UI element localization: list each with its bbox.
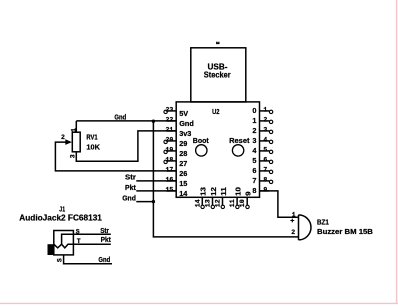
svg-text:S: S — [57, 258, 64, 262]
svg-text:3: 3 — [70, 154, 77, 158]
svg-text:RV1: RV1 — [86, 134, 97, 141]
wire U2 pin 9 to buzzer pin 1 — [260, 191, 299, 217]
svg-text:11: 11 — [229, 199, 236, 207]
IC U2 body — [176, 102, 259, 197]
wire Gnd stub near U2 bottom-left — [136, 201, 153, 203]
svg-text:16: 16 — [165, 177, 173, 184]
svg-text:Gnd: Gnd — [98, 257, 110, 264]
cropped designator mark above USB connector — [217, 42, 219, 44]
U2 bottom pin 10 (9) — [239, 192, 252, 209]
svg-text:2: 2 — [61, 134, 65, 141]
svg-text:15: 15 — [179, 179, 187, 188]
svg-text:Buzzer BM 15B: Buzzer BM 15B — [317, 229, 373, 236]
svg-text:27: 27 — [179, 159, 187, 168]
svg-text:1: 1 — [252, 116, 256, 125]
U2 right pin 5 (4) — [252, 146, 272, 155]
wire Str to U2 pin 16 — [136, 180, 176, 182]
wire RV1 wiper pin2 to U2 pin 17 — [55, 142, 176, 171]
U2 left pin 21 (3v3) — [165, 127, 191, 139]
svg-text:Pkt: Pkt — [125, 185, 137, 192]
wire Gnd: RV1 pin1 to U2 pin 22 — [76, 120, 176, 122]
buzzer BZ1 body — [299, 215, 312, 240]
svg-text:Boot: Boot — [193, 138, 210, 145]
U2 right pin 8 (7) — [252, 176, 272, 185]
wire Pkt to U2 pin 15 — [136, 190, 176, 192]
svg-text:26: 26 — [179, 169, 187, 178]
svg-text:9: 9 — [244, 192, 253, 196]
svg-text:7: 7 — [252, 176, 256, 185]
svg-text:23: 23 — [165, 107, 173, 114]
svg-text:Reset: Reset — [229, 138, 250, 145]
buzzer BZ1 plus sign — [290, 219, 294, 223]
svg-text:28: 28 — [179, 149, 187, 158]
svg-text:10: 10 — [239, 199, 246, 207]
U2 left pin 15 (14) — [165, 187, 188, 199]
svg-text:Gnd: Gnd — [179, 119, 194, 128]
svg-text:21: 21 — [165, 127, 173, 134]
svg-text:Str: Str — [125, 175, 136, 182]
svg-text:22: 22 — [165, 117, 173, 124]
svg-text:8: 8 — [252, 186, 256, 195]
svg-text:Gnd: Gnd — [122, 196, 136, 203]
U2 right pin 2 (1) — [252, 116, 272, 125]
svg-text:4: 4 — [263, 136, 267, 143]
potentiometer RV1 body — [72, 132, 80, 152]
svg-text:BZ1: BZ1 — [317, 220, 329, 227]
U2 left pin 23 (5V) — [164, 107, 188, 119]
U2 right pin 6 (5) — [252, 156, 272, 165]
svg-text:6: 6 — [263, 156, 267, 163]
svg-text:3: 3 — [263, 126, 267, 133]
svg-text:29: 29 — [179, 139, 187, 148]
RV1 wiper arrow — [65, 139, 72, 145]
svg-text:20: 20 — [165, 137, 173, 144]
svg-text:8: 8 — [263, 176, 267, 183]
U2 right pin 9 (8) — [252, 186, 269, 195]
U2 Boot button circle — [196, 145, 207, 156]
U2 left pin 22 (Gnd) — [165, 117, 193, 129]
junction dot Gnd stub to vertical bus — [152, 200, 155, 203]
U2 left pin 19 (28) — [164, 147, 187, 159]
svg-text:6: 6 — [252, 166, 256, 175]
wire J1 bottom pin to Gnd — [64, 255, 112, 264]
RV1 pin1 stub — [75, 121, 77, 132]
svg-text:5: 5 — [252, 156, 256, 165]
audio jack J1 body — [54, 231, 74, 255]
svg-text:14: 14 — [194, 199, 201, 207]
svg-text:18: 18 — [165, 157, 173, 164]
svg-text:5V: 5V — [179, 109, 188, 118]
U2 left pin 17 (26) — [165, 167, 187, 179]
wire J1 S pin to Str — [73, 233, 110, 235]
svg-text:Str: Str — [100, 228, 109, 235]
svg-text:1: 1 — [70, 128, 77, 132]
svg-text:1: 1 — [292, 212, 296, 219]
svg-text:14: 14 — [179, 189, 188, 198]
svg-text:19: 19 — [165, 147, 173, 154]
U2 right pin 7 (6) — [252, 166, 272, 175]
svg-text:7: 7 — [263, 166, 267, 173]
svg-text:0: 0 — [252, 106, 256, 115]
U2 right pin 4 (3) — [252, 136, 272, 145]
U2 bottom pin 11 (10) — [229, 187, 242, 209]
svg-text:Stecker: Stecker — [204, 70, 232, 79]
svg-text:2: 2 — [252, 126, 256, 135]
svg-text:2: 2 — [263, 116, 267, 123]
connector USB-Stecker body — [191, 48, 246, 102]
svg-text:11: 11 — [219, 187, 228, 196]
U2 left pin 18 (27) — [164, 157, 187, 169]
svg-text:15: 15 — [165, 187, 173, 194]
U2 Reset button circle — [232, 145, 243, 156]
U2 left pin 20 (29) — [164, 137, 187, 149]
audio jack J1 sleeve block — [48, 244, 54, 255]
svg-text:Gnd: Gnd — [114, 115, 126, 122]
svg-text:9: 9 — [263, 186, 267, 193]
svg-text:12: 12 — [215, 199, 222, 207]
U2 left pin 16 (15) — [165, 177, 187, 189]
svg-text:Pkt: Pkt — [101, 237, 112, 244]
svg-text:3v3: 3v3 — [179, 129, 191, 138]
svg-text:17: 17 — [165, 167, 173, 174]
svg-text:13: 13 — [199, 187, 208, 196]
audio jack J1 sleeve contact rail — [62, 234, 74, 244]
junction dot on Gnd wire at pin 22 — [152, 120, 155, 123]
U2 bottom pin 12 (11) — [215, 187, 228, 209]
svg-text:12: 12 — [209, 187, 218, 196]
svg-text:5: 5 — [263, 146, 267, 153]
wire vertical Gnd bus down to buzzer pin 2 — [153, 121, 298, 237]
U2 bottom pin 14 (13) — [194, 187, 207, 209]
svg-text:AudioJack2 FC68131: AudioJack2 FC68131 — [19, 214, 102, 223]
svg-text:10: 10 — [234, 187, 243, 196]
U2 right pin 3 (2) — [252, 126, 272, 135]
svg-text:10K: 10K — [86, 144, 100, 151]
wire RV1 pin3 to U2 pin 21 (3v3) — [76, 131, 176, 161]
svg-text:1: 1 — [263, 106, 267, 113]
wire J1 T pin to Pkt — [73, 243, 110, 245]
svg-text:U2: U2 — [212, 109, 219, 116]
U2 bottom pin 13 (12) — [205, 187, 218, 209]
connector USB-Stecker label — [204, 63, 232, 80]
U2 right pin 1 (0) — [252, 106, 272, 115]
svg-text:13: 13 — [205, 199, 212, 207]
svg-text:2: 2 — [291, 229, 295, 236]
svg-text:3: 3 — [252, 136, 256, 145]
svg-text:J1: J1 — [59, 207, 65, 214]
audio jack J1 tip contact zigzag — [54, 244, 74, 248]
